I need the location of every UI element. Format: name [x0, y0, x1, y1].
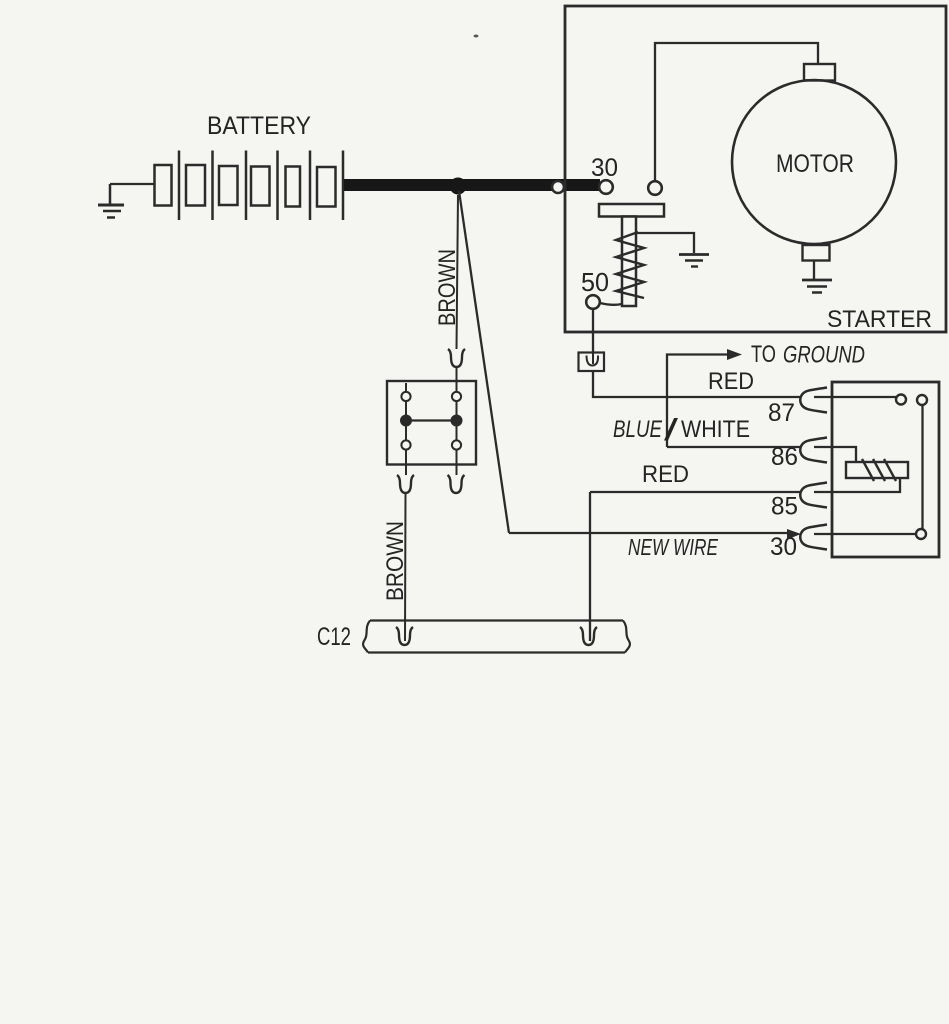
svg-text:STARTER: STARTER: [827, 306, 932, 333]
solenoid coil spring: [616, 232, 644, 298]
wire new-wire diagonal from junction: [459, 191, 509, 533]
wire 50 down out of box: [592, 309, 594, 352]
wire blue/white to relay 86: [667, 446, 800, 448]
wire brown block to C12: [404, 493, 407, 641]
svg-text:30: 30: [591, 154, 618, 182]
wire red down to C12: [589, 492, 591, 641]
connector cup below block right: [448, 475, 465, 493]
terminal circle 50: [586, 295, 600, 309]
connector cup above block: [448, 349, 465, 367]
relay contact circle A: [896, 395, 906, 405]
svg-text:MOTOR: MOTOR: [776, 150, 854, 178]
arrowhead new wire into 30: [787, 529, 801, 540]
relay terminal 30: [800, 525, 827, 550]
wire 50 terminal to plunger: [600, 303, 622, 305]
relay terminal 86: [800, 438, 827, 463]
junction node on battery feed: [450, 178, 467, 195]
svg-text:86: 86: [771, 443, 798, 471]
svg-text:C12: C12: [317, 623, 351, 651]
block left pin column: [401, 383, 411, 475]
svg-text:30: 30: [770, 533, 797, 561]
battery B1 plates: [155, 151, 344, 221]
terminal circle end of feed wire: [599, 180, 613, 194]
wire new-wire horizontal to relay 30: [509, 532, 789, 534]
svg-text:/: /: [664, 412, 679, 447]
wire red 85 horizontal: [590, 491, 800, 493]
svg-text:50: 50: [581, 267, 609, 297]
svg-text:BATTERY: BATTERY: [207, 112, 311, 140]
arrowhead to ground: [727, 349, 742, 360]
svg-text:TO: TO: [751, 341, 776, 368]
block bus between pins: [411, 419, 452, 421]
ground (motor): [802, 280, 832, 293]
wire solenoid to ground: [637, 233, 694, 253]
relay box: [832, 382, 939, 557]
block right pin column: [452, 381, 462, 475]
svg-text:WHITE: WHITE: [681, 416, 750, 443]
solenoid plunger: [622, 217, 636, 307]
ground (solenoid): [679, 255, 709, 267]
wire brown from junction down: [457, 195, 459, 349]
connector cup C12 left: [396, 627, 413, 645]
starter box: [565, 6, 946, 332]
wire motor to ground: [813, 261, 815, 280]
svg-text:BROWN: BROWN: [434, 249, 461, 326]
terminal circle on feed wire: [552, 181, 564, 193]
wire thick battery feed to starter 30: [344, 179, 600, 191]
bullet connector on 50 wire: [579, 353, 605, 372]
wire cup to block: [456, 367, 458, 381]
connector block C-box: [387, 381, 476, 465]
relay internal wire contact B down: [921, 405, 923, 529]
wire 50 connector to relay 87: [593, 371, 800, 397]
svg-text:85: 85: [771, 493, 798, 521]
connector cup below block left: [397, 475, 414, 493]
svg-text:RED: RED: [708, 368, 754, 395]
connector cup C12 right: [580, 627, 597, 645]
svg-text:87: 87: [768, 399, 795, 427]
ground (battery negative): [98, 184, 124, 218]
terminal circle motor feed: [648, 181, 662, 195]
svg-text:GROUND: GROUND: [783, 342, 865, 369]
relay internal wire coil to 85: [814, 478, 900, 492]
connector bar C12: [363, 621, 630, 653]
svg-text:BROWN: BROWN: [382, 521, 409, 601]
svg-text:BLUE: BLUE: [613, 416, 663, 443]
relay internal wire 87 to contact: [814, 396, 896, 398]
motor top terminal lug: [804, 64, 835, 81]
motor M1: [732, 80, 896, 244]
relay internal wire 86 to coil: [814, 447, 856, 462]
svg-text:NEW WIRE: NEW WIRE: [628, 534, 718, 560]
relay terminal 87: [800, 388, 827, 413]
relay internal wire 30 to contact C: [814, 533, 916, 535]
relay contact circle C: [916, 529, 926, 539]
relay terminal 85: [800, 483, 827, 508]
wire motor top feed: [655, 43, 818, 181]
relay contact circle B: [917, 395, 927, 405]
wire to-ground branch: [667, 355, 730, 448]
solenoid T-bar: [599, 204, 664, 217]
stray scan dot: [474, 35, 479, 38]
svg-text:RED: RED: [642, 461, 689, 488]
motor bottom terminal lug: [803, 245, 830, 261]
relay coil: [846, 459, 908, 481]
wire ground to battery: [110, 183, 154, 185]
